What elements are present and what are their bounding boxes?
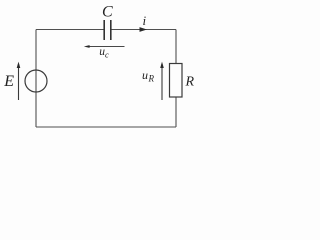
svg-text:R: R (148, 74, 155, 84)
svg-text:E: E (3, 73, 14, 90)
wire right side (175, 30, 177, 128)
resistor arrow u_R (160, 62, 164, 100)
capacitor C plates (104, 20, 111, 40)
label u_c (99, 46, 109, 59)
u_c arrow (84, 45, 125, 48)
label u_R (142, 68, 155, 84)
wire bottom segment (36, 126, 176, 128)
resistor R body (170, 64, 183, 98)
svg-text:C: C (102, 4, 113, 21)
wire top-left segment (36, 29, 104, 31)
svg-text:R: R (185, 75, 195, 90)
source E circle (25, 70, 47, 92)
svg-text:c: c (105, 49, 109, 59)
wire top-right segment (111, 29, 176, 31)
wire left side (35, 30, 37, 128)
source EMF arrow (17, 62, 21, 100)
svg-text:i: i (143, 13, 147, 28)
svg-text:u: u (142, 68, 148, 82)
current arrow i head (140, 27, 148, 32)
